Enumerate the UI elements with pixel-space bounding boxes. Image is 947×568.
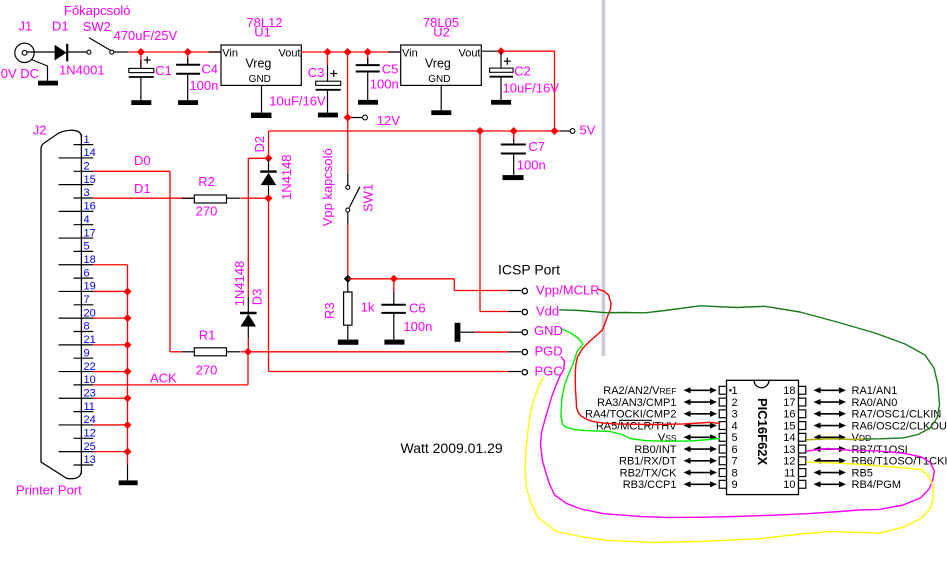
svg-text:5: 5: [84, 241, 90, 253]
svg-text:12: 12: [84, 428, 96, 440]
svg-text:ACK: ACK: [150, 370, 177, 385]
svg-text:Vreg: Vreg: [425, 56, 451, 70]
svg-text:6: 6: [732, 444, 738, 456]
svg-text:PGC: PGC: [535, 363, 563, 378]
svg-text:5V: 5V: [580, 123, 596, 138]
svg-text:2: 2: [84, 161, 90, 173]
svg-text:C1: C1: [155, 63, 172, 78]
svg-text:Vpp kapcsoló: Vpp kapcsoló: [320, 148, 335, 226]
svg-text:11: 11: [784, 467, 795, 479]
svg-text:13: 13: [84, 454, 96, 466]
svg-text:100n: 100n: [517, 158, 546, 173]
svg-text:1N4001: 1N4001: [59, 62, 105, 77]
svg-text:20V DC: 20V DC: [0, 66, 39, 81]
svg-text:14: 14: [84, 147, 96, 159]
svg-text:10: 10: [783, 479, 795, 491]
svg-text:RB5: RB5: [852, 467, 873, 479]
svg-text:RA6/OSC2/CLKOUT: RA6/OSC2/CLKOUT: [852, 420, 947, 432]
svg-text:D1: D1: [52, 19, 69, 34]
svg-text:16: 16: [84, 201, 96, 213]
svg-text:1N4148: 1N4148: [232, 261, 247, 307]
svg-text:Watt 2009.01.29: Watt 2009.01.29: [401, 440, 503, 456]
svg-text:GND: GND: [428, 74, 450, 85]
svg-text:D0: D0: [134, 153, 151, 168]
svg-text:270: 270: [196, 363, 218, 378]
svg-text:12V: 12V: [377, 113, 400, 128]
svg-text:RA3/AN3/CMP1: RA3/AN3/CMP1: [597, 397, 676, 409]
svg-text:Vdd: Vdd: [536, 303, 559, 318]
svg-text:PIC16F62X: PIC16F62X: [755, 398, 770, 466]
svg-text:17: 17: [783, 397, 795, 409]
svg-text:15: 15: [783, 420, 795, 432]
svg-text:1: 1: [732, 385, 738, 397]
svg-text:7: 7: [732, 456, 738, 468]
svg-text:VSS: VSS: [658, 432, 677, 444]
svg-text:3: 3: [84, 187, 90, 199]
svg-text:D3: D3: [249, 289, 264, 306]
svg-text:10uF/16V: 10uF/16V: [269, 93, 326, 108]
svg-text:C7: C7: [528, 139, 545, 154]
svg-text:R3: R3: [322, 302, 337, 319]
svg-text:R1: R1: [199, 327, 216, 342]
svg-text:Vreg: Vreg: [245, 56, 271, 70]
svg-text:Vout: Vout: [278, 48, 300, 60]
svg-text:9: 9: [84, 347, 90, 359]
svg-text:16: 16: [783, 409, 795, 421]
svg-text:GND: GND: [249, 74, 271, 85]
svg-text:10uF/16V: 10uF/16V: [503, 80, 560, 95]
svg-text:RA5/MCLR/THV: RA5/MCLR/THV: [596, 420, 677, 432]
svg-text:100n: 100n: [370, 77, 399, 92]
svg-text:RA7/OSC1/CLKIN: RA7/OSC1/CLKIN: [852, 409, 942, 421]
svg-text:9: 9: [732, 479, 738, 491]
svg-text:R2: R2: [198, 174, 215, 189]
svg-text:4: 4: [732, 420, 738, 432]
svg-text:8: 8: [84, 321, 90, 333]
svg-text:10: 10: [84, 374, 96, 386]
svg-text:U1: U1: [254, 25, 271, 40]
svg-text:100n: 100n: [189, 78, 218, 93]
svg-text:13: 13: [783, 444, 795, 456]
svg-text:GND: GND: [534, 323, 563, 338]
svg-text:14: 14: [783, 432, 795, 444]
svg-text:RB4/PGM: RB4/PGM: [852, 479, 902, 491]
svg-text:Printer Port: Printer Port: [16, 482, 82, 497]
svg-text:11: 11: [84, 401, 95, 413]
svg-text:100n: 100n: [403, 319, 432, 334]
svg-text:C6: C6: [409, 301, 426, 316]
svg-text:J1: J1: [19, 19, 33, 34]
svg-text:C4: C4: [201, 62, 218, 77]
svg-text:4: 4: [84, 214, 90, 226]
svg-text:12: 12: [783, 456, 795, 468]
svg-text:D1: D1: [134, 181, 151, 196]
svg-text:15: 15: [84, 174, 96, 186]
svg-text:RB6/T1OSO/T1CKI: RB6/T1OSO/T1CKI: [852, 456, 947, 468]
svg-text:Főkapcsoló: Főkapcsoló: [64, 3, 130, 18]
svg-text:470uF/25V: 470uF/25V: [114, 28, 178, 43]
svg-text:Vin: Vin: [402, 48, 418, 60]
svg-text:RB2/TX/CK: RB2/TX/CK: [620, 467, 678, 479]
svg-text:C3: C3: [308, 65, 325, 80]
svg-text:5: 5: [732, 432, 738, 444]
svg-text:1N4148: 1N4148: [279, 154, 294, 200]
svg-text:Vin: Vin: [222, 48, 238, 60]
svg-text:SW2: SW2: [83, 19, 111, 34]
svg-text:PGD: PGD: [535, 343, 563, 358]
svg-text:D2: D2: [252, 136, 267, 153]
svg-text:RA2/AN2/VREF: RA2/AN2/VREF: [603, 385, 676, 397]
svg-text:18: 18: [783, 385, 795, 397]
svg-text:RA1/AN1: RA1/AN1: [852, 385, 898, 397]
svg-text:270: 270: [196, 204, 218, 219]
svg-text:17: 17: [84, 227, 96, 239]
svg-text:8: 8: [732, 467, 738, 479]
svg-text:2: 2: [732, 397, 738, 409]
svg-text:RA0/AN0: RA0/AN0: [852, 397, 898, 409]
svg-text:RB1/RX/DT: RB1/RX/DT: [619, 456, 677, 468]
svg-text:RB3/CCP1: RB3/CCP1: [623, 479, 677, 491]
svg-text:ICSP Port: ICSP Port: [498, 262, 560, 278]
svg-text:7: 7: [84, 294, 90, 306]
svg-text:3: 3: [732, 409, 738, 421]
svg-text:Vout: Vout: [458, 48, 480, 60]
svg-text:U2: U2: [433, 25, 450, 40]
svg-text:1: 1: [84, 134, 90, 146]
svg-text:VDD: VDD: [852, 432, 872, 444]
svg-text:SW1: SW1: [361, 184, 376, 212]
svg-text:RB0/INT: RB0/INT: [634, 444, 676, 456]
svg-text:C5: C5: [382, 61, 399, 76]
svg-text:1k: 1k: [361, 299, 375, 314]
svg-text:Vpp/MCLR: Vpp/MCLR: [536, 282, 600, 297]
svg-text:C2: C2: [514, 64, 531, 79]
svg-text:J2: J2: [33, 123, 47, 138]
svg-text:RA4/TOCKI/CMP2: RA4/TOCKI/CMP2: [585, 409, 677, 421]
svg-text:6: 6: [84, 267, 90, 279]
